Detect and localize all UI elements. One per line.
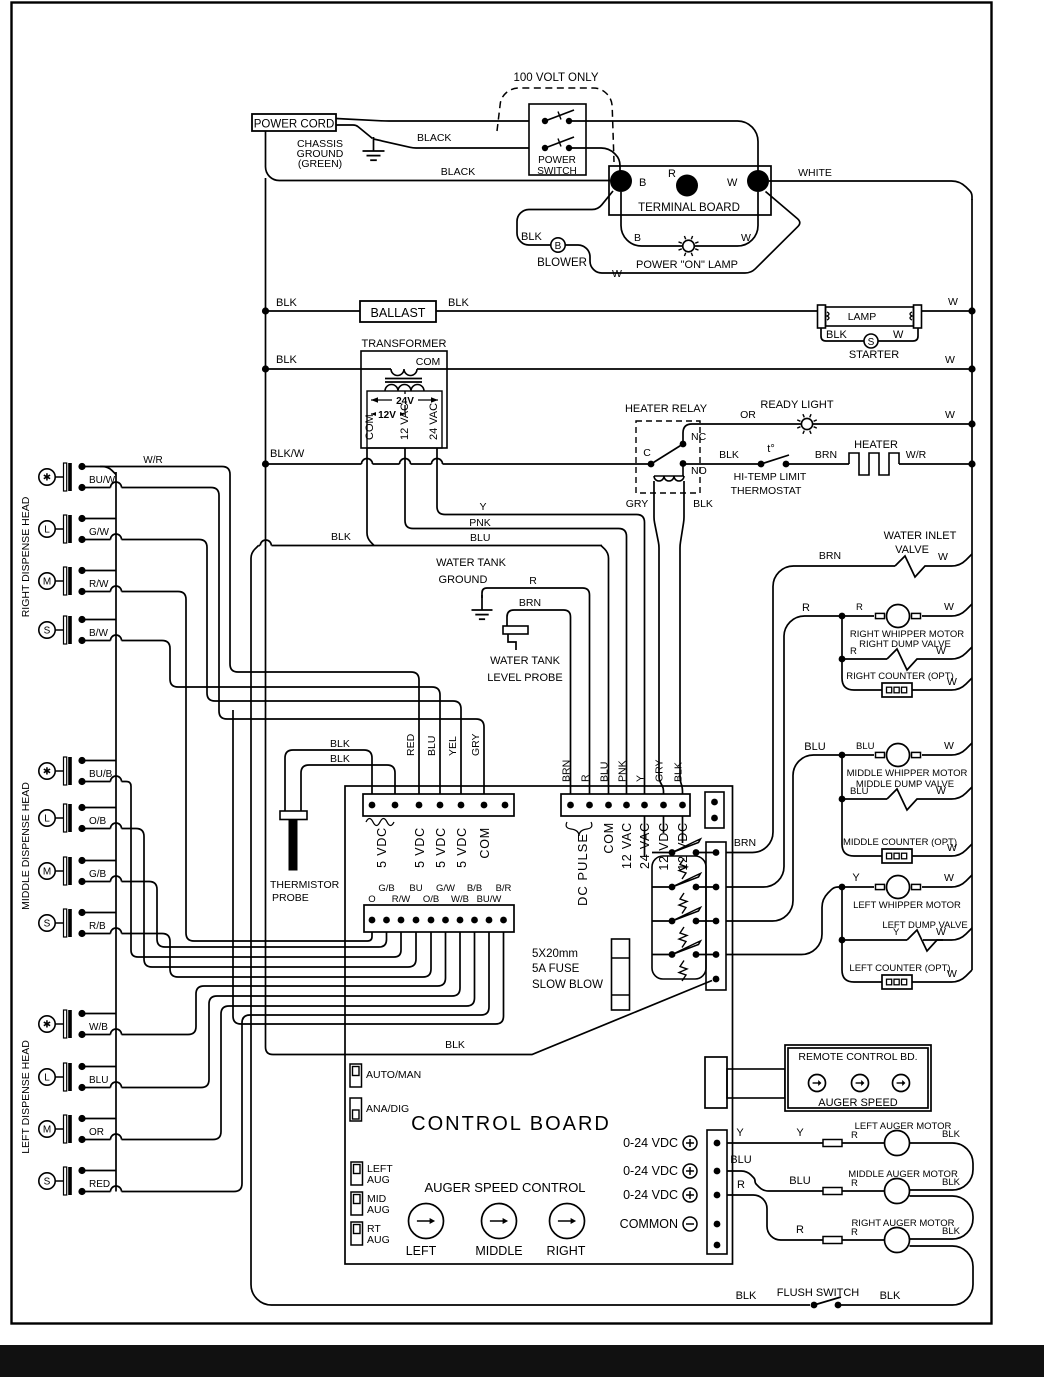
- svg-text:W/R: W/R: [906, 449, 927, 461]
- svg-text:PNK: PNK: [617, 760, 629, 782]
- middle dump valve feed wire: [841, 755, 843, 799]
- svg-text:BLK: BLK: [445, 1039, 465, 1051]
- hop BLK545 over chassis vertical: [260, 540, 271, 546]
- middle head connector ✱ bottom pin wire with hop: [82, 781, 111, 783]
- 10-pin connector box: [364, 905, 514, 932]
- power switch blade 1: [545, 110, 574, 121]
- svg-text:BLK: BLK: [826, 329, 847, 341]
- 10-pin connector pin 1: [369, 917, 376, 924]
- left head connector M pin bottom: [78, 1136, 85, 1143]
- svg-text:HI-TEMP LIMIT: HI-TEMP LIMIT: [734, 471, 807, 483]
- wire to middle dump valve: [842, 798, 887, 800]
- thermostat blade: [761, 455, 789, 464]
- left auger speed knob: [409, 1204, 444, 1239]
- 5VDC connector pin 5: [458, 802, 465, 809]
- lamp filament right: [910, 312, 912, 320]
- svg-text:ANA/DIG: ANA/DIG: [366, 1103, 409, 1115]
- relay coil GRY lead to pin: [654, 481, 664, 794]
- svg-text:FLUSH SWITCH: FLUSH SWITCH: [777, 1287, 860, 1299]
- svg-text:R/B: R/B: [89, 921, 106, 932]
- BLK wire chassis to relay common: [266, 981, 713, 1055]
- svg-text:W: W: [947, 676, 957, 688]
- 2-pin connector box: [705, 792, 724, 828]
- svg-text:S: S: [44, 626, 51, 637]
- MID AUG switch: [351, 1192, 363, 1215]
- right auger speed knob: [550, 1204, 585, 1239]
- relay feed wire from DC pulse pin 6: [663, 816, 665, 833]
- junction right dump valve: [839, 656, 846, 663]
- svg-text:GROUND: GROUND: [439, 574, 488, 586]
- triac relay row 2 blade: [672, 874, 701, 888]
- flush switch terminal right: [835, 1302, 842, 1309]
- middle head connector M bottom pin wire with hop: [82, 881, 111, 883]
- W wire middle whipper to bus: [922, 743, 972, 755]
- middle head connector M pin bottom: [78, 878, 85, 885]
- right head connector ✱ circle: [39, 469, 63, 485]
- svg-text:BLACK: BLACK: [417, 132, 451, 144]
- svg-text:R: R: [856, 602, 863, 613]
- svg-text:t°: t°: [767, 443, 774, 455]
- svg-text:O: O: [368, 894, 375, 905]
- svg-text:NC: NC: [691, 431, 707, 443]
- svg-text:SLOW BLOW: SLOW BLOW: [532, 979, 603, 991]
- svg-text:LEFT: LEFT: [406, 1244, 437, 1258]
- BU/W harness wire: [122, 488, 485, 795]
- triac relay row 3 left stub: [652, 920, 672, 922]
- right head connector S top pin wire to bus: [82, 619, 116, 621]
- relay contact C: [648, 461, 655, 468]
- svg-text:BRN: BRN: [519, 597, 541, 609]
- svg-text:COM: COM: [364, 414, 376, 440]
- svg-text:W: W: [936, 926, 946, 938]
- wire switch top to W post: [569, 121, 758, 172]
- svg-text:RIGHT DISPENSE HEAD: RIGHT DISPENSE HEAD: [20, 496, 32, 617]
- wire to left whipper motor: [842, 886, 874, 888]
- left head connector L top pin wire to bus: [82, 1066, 116, 1068]
- svg-text:BLU: BLU: [730, 1154, 751, 1166]
- svg-text:W: W: [938, 551, 948, 563]
- svg-text:BLU: BLU: [789, 1175, 810, 1187]
- svg-text:SWITCH: SWITCH: [537, 166, 576, 177]
- right auger dropping resistor: [823, 1237, 842, 1244]
- svg-text:HEATER RELAY: HEATER RELAY: [625, 403, 708, 415]
- DC pulse pin 6: [660, 802, 667, 809]
- svg-text:BRN: BRN: [561, 760, 573, 782]
- middle auger speed knob: [482, 1204, 517, 1239]
- svg-text:W: W: [727, 177, 738, 189]
- middle head connector L top pin wire to bus: [82, 807, 116, 809]
- svg-text:POWER CORD: POWER CORD: [254, 119, 335, 131]
- svg-text:B/B: B/B: [467, 883, 482, 894]
- svg-text:VALVE: VALVE: [895, 544, 929, 556]
- transformer COM tap wire down to BLK/BLU line: [367, 448, 374, 546]
- DC pulse connector box: [561, 794, 690, 816]
- BU/B harness wire: [122, 782, 402, 958]
- svg-text:STARTER: STARTER: [849, 349, 899, 361]
- B/R harness wire pin10: [233, 710, 504, 1024]
- triac relay row 3 right contact: [693, 918, 700, 925]
- remote board connector on control board: [705, 1057, 727, 1108]
- svg-text:DC PULSE: DC PULSE: [575, 833, 590, 906]
- triac relay row 3 gate zigzag: [679, 927, 687, 948]
- DC pulse pin 3: [605, 802, 612, 809]
- svg-text:BLK: BLK: [880, 1290, 901, 1302]
- DC pulse pin 5: [641, 802, 648, 809]
- middle auger motor: [885, 1179, 910, 1204]
- right head connector M contact bars: [64, 567, 72, 595]
- svg-text:S: S: [44, 919, 51, 930]
- wire to middle counter: [842, 799, 884, 856]
- svg-text:BLK: BLK: [276, 354, 297, 366]
- terminal board box: [609, 166, 771, 215]
- thermistor wire 2 BLK: [301, 765, 395, 811]
- svg-text:REMOTE CONTROL BD.: REMOTE CONTROL BD.: [798, 1051, 917, 1063]
- W/R wire right head to harness: [100, 467, 419, 795]
- terminal post R: [676, 175, 698, 197]
- junction chassis-ballast: [262, 307, 269, 314]
- svg-text:OR: OR: [740, 409, 756, 421]
- BRN riser to water inlet valve: [726, 566, 895, 853]
- thermostat terminal right: [783, 461, 790, 468]
- right head connector L bottom pin wire with hop: [82, 539, 111, 541]
- middle head connector L circle: [39, 810, 63, 826]
- right head connector M top pin wire to bus: [82, 570, 116, 572]
- power switch box: [529, 104, 586, 175]
- svg-text:0-24 VDC: 0-24 VDC: [623, 1136, 678, 1150]
- svg-text:BLU: BLU: [599, 762, 611, 782]
- wire to left counter: [842, 940, 884, 982]
- triac relay row 4 left contact: [669, 951, 676, 958]
- left head connector ✱ top pin wire to bus: [82, 1013, 116, 1015]
- LEFT AUG switch: [351, 1162, 363, 1185]
- right head connector ✱ bottom pin wire with hop: [82, 487, 111, 489]
- svg-text:THERMISTOR: THERMISTOR: [270, 879, 340, 891]
- transformer secondary winding: [385, 385, 424, 392]
- svg-text:LEFT DUMP VALVE: LEFT DUMP VALVE: [882, 920, 967, 931]
- middle head connector L pin top: [78, 804, 85, 811]
- flush switch blade: [814, 1297, 841, 1305]
- middle head connector M top pin wire to bus: [82, 860, 116, 862]
- BLU harness wire: [122, 932, 461, 1088]
- BLU riser wire to middle whipper: [726, 755, 842, 921]
- 5VDC connector pin 3: [416, 802, 423, 809]
- svg-text:BLK: BLK: [942, 1226, 961, 1237]
- relay strip common pin: [713, 976, 720, 983]
- fluorescent lamp end cap left: [818, 305, 826, 328]
- right head connector S pin bottom: [78, 637, 85, 644]
- svg-text:✱: ✱: [43, 1020, 51, 1031]
- wire resistor to left auger motor: [842, 1142, 885, 1144]
- triac relay row 3 strip pin: [713, 918, 720, 925]
- junction middle dump valve: [839, 796, 846, 803]
- 0-24VDC output strip: [707, 1130, 727, 1254]
- ANA/DIG switch: [350, 1098, 362, 1121]
- remote knob 2: [852, 1075, 869, 1092]
- power switch pole 2 left: [542, 145, 548, 151]
- W wire right dump to bus: [923, 647, 972, 659]
- 12V arrow span: [371, 408, 405, 419]
- svg-text:POWER: POWER: [538, 155, 576, 166]
- hop transformer 12VAC tap over BLKW: [400, 459, 411, 464]
- left auger BLK return bracket: [910, 1143, 974, 1190]
- svg-text:L: L: [44, 1073, 50, 1084]
- power on lamp wire B side: [621, 192, 683, 246]
- 100 volt only dashed outline: [497, 88, 614, 162]
- triac relay row 1 gate zigzag: [679, 859, 687, 880]
- power switch pole 2 right: [566, 145, 572, 151]
- wire switch bottom to B post: [569, 148, 620, 172]
- transformer 12VAC tap (PNK) down: [405, 448, 627, 794]
- svg-text:AUG: AUG: [367, 1204, 390, 1216]
- BRN wire thermostat to heater: [786, 463, 849, 465]
- water tank level probe symbol: [503, 626, 528, 650]
- svg-text:R: R: [851, 1178, 858, 1189]
- 5VDC connector pin 2: [392, 802, 399, 809]
- 0-24VDC strip pin 5: [714, 1242, 721, 1249]
- terminal post W: [747, 170, 769, 192]
- svg-text:BU/W: BU/W: [477, 894, 502, 905]
- triac relay row 4 wire to strip pin: [696, 954, 716, 956]
- svg-text:B/W: B/W: [89, 628, 108, 639]
- svg-text:BLU: BLU: [470, 532, 490, 544]
- BRN wire probe to DC pulse pin1: [507, 610, 571, 794]
- remote knob 1: [809, 1075, 826, 1092]
- black wire cord to power switch: [374, 139, 530, 148]
- W wire lamp to bus: [922, 310, 973, 312]
- relay blade C-NC: [651, 444, 683, 464]
- left dump valve feed wire: [841, 887, 843, 940]
- svg-text:PNK: PNK: [469, 517, 491, 529]
- relay feed wire from DC pulse pin 7: [682, 816, 684, 843]
- svg-text:Y: Y: [796, 1127, 804, 1139]
- transformer core line 2: [385, 381, 422, 383]
- triac relay row 4 strip pin: [713, 951, 720, 958]
- svg-text:✱: ✱: [43, 473, 51, 484]
- left head connector L pin top: [78, 1063, 85, 1070]
- svg-text:O/B: O/B: [423, 894, 439, 905]
- svg-text:MIDDLE COUNTER (OPT): MIDDLE COUNTER (OPT): [843, 837, 957, 848]
- svg-text:RIGHT AUGER MOTOR: RIGHT AUGER MOTOR: [851, 1218, 954, 1229]
- triac relay row 3 left contact: [669, 918, 676, 925]
- power switch pole 1 right: [566, 118, 572, 124]
- svg-text:W: W: [945, 354, 955, 366]
- right head connector S contact bars: [64, 616, 72, 644]
- svg-text:M: M: [43, 577, 51, 588]
- left head connector ✱ bottom pin wire with hop: [82, 1034, 111, 1036]
- BLK wire chassis bottom run (y545): [259, 545, 603, 547]
- svg-text:0-24 VDC: 0-24 VDC: [623, 1188, 678, 1202]
- svg-text:W: W: [947, 842, 957, 854]
- fluorescent lamp end cap right: [914, 305, 922, 328]
- left head connector L contact bars: [64, 1063, 72, 1091]
- 10-pin connector pin 10: [500, 917, 507, 924]
- svg-text:G/W: G/W: [89, 527, 110, 538]
- transformer primary winding: [391, 369, 417, 376]
- relay contact NO: [680, 460, 687, 467]
- svg-text:R: R: [737, 1179, 745, 1191]
- right dump valve feed wire: [841, 616, 843, 659]
- svg-text:AUGER SPEED CONTROL: AUGER SPEED CONTROL: [424, 1180, 585, 1195]
- W bus vertical right side: [971, 199, 973, 970]
- right head connector M circle: [39, 573, 63, 589]
- svg-text:RIGHT: RIGHT: [547, 1244, 586, 1258]
- power on lamp symbol: [679, 236, 699, 256]
- svg-text:✱: ✱: [43, 767, 51, 778]
- bottom black bar: [0, 1345, 1044, 1377]
- triac relay row 2 strip pin: [713, 884, 720, 891]
- svg-text:W/R: W/R: [143, 455, 162, 466]
- right auger motor: [885, 1228, 910, 1253]
- svg-text:GRY: GRY: [626, 498, 649, 510]
- svg-text:G/B: G/B: [378, 883, 394, 894]
- right head connector L pin bottom: [78, 536, 85, 543]
- W wire right counter to bus: [912, 678, 972, 690]
- left head connector S bottom pin wire with hop: [82, 1191, 111, 1193]
- svg-text:AUG: AUG: [367, 1234, 390, 1246]
- svg-text:PROBE: PROBE: [272, 892, 309, 904]
- svg-text:BLK: BLK: [693, 498, 713, 510]
- junction W bus heater: [968, 460, 975, 467]
- right head connector L circle: [39, 521, 63, 537]
- ready light lamp symbol: [797, 414, 817, 434]
- left head connector S pin top: [78, 1167, 85, 1174]
- terminal post B: [610, 170, 632, 192]
- minus terminal common: [683, 1217, 697, 1231]
- 10-pin connector pin 2: [383, 917, 390, 924]
- svg-text:5X20mm: 5X20mm: [532, 948, 578, 960]
- svg-text:READY LIGHT: READY LIGHT: [760, 399, 833, 411]
- O/B harness wire: [122, 829, 417, 968]
- remote board ribbon link: [727, 1069, 785, 1098]
- left head connector ✱ circle: [39, 1016, 63, 1032]
- BLU wire down to DC pulse pin3: [601, 546, 609, 795]
- svg-text:MIDDLE DISPENSE HEAD: MIDDLE DISPENSE HEAD: [20, 782, 32, 910]
- triac relay row 2 gate zigzag: [679, 893, 687, 914]
- remote knob 3: [893, 1075, 910, 1092]
- svg-text:B: B: [639, 177, 646, 189]
- chassis BLK left vertical to bottom: [251, 546, 810, 1306]
- right head connector ✱ contact bars: [64, 463, 72, 491]
- relay contact NC: [680, 441, 687, 448]
- hop transformer COM tap over BLKW: [362, 459, 373, 464]
- transformer secondary inner box: [367, 391, 442, 448]
- svg-text:BLK: BLK: [330, 753, 350, 765]
- dispense head common bus: [115, 472, 117, 1192]
- svg-text:COM: COM: [602, 822, 616, 854]
- svg-text:BLOWER: BLOWER: [537, 257, 587, 269]
- water inlet valve symbol: [895, 556, 931, 577]
- 0-24VDC strip pin 3: [714, 1192, 721, 1199]
- R/B harness wire: [122, 932, 432, 977]
- BLU wire 0-24VDC pin2 to middle auger: [727, 1171, 823, 1191]
- triac relay row 2 wire to strip pin: [696, 886, 716, 888]
- svg-text:BRN: BRN: [819, 550, 841, 562]
- junction right whipper feed: [839, 613, 846, 620]
- svg-text:LEFT DISPENSE HEAD: LEFT DISPENSE HEAD: [20, 1040, 32, 1154]
- triac relay row 2 left stub: [652, 886, 672, 888]
- transformer box: [361, 351, 447, 448]
- svg-text:BU/W: BU/W: [89, 475, 116, 486]
- svg-text:24 VAC: 24 VAC: [428, 403, 440, 440]
- svg-text:5A FUSE: 5A FUSE: [532, 963, 580, 975]
- 5VDC brace pins 1-2: [366, 819, 394, 826]
- triac relay row 4 left stub: [652, 954, 672, 956]
- svg-text:BLK: BLK: [276, 297, 297, 309]
- W/B harness wire: [122, 932, 446, 1035]
- svg-text:R: R: [580, 774, 592, 782]
- svg-text:G/W: G/W: [436, 883, 455, 894]
- svg-text:COM: COM: [416, 356, 441, 368]
- COM wire transformer to bus: [417, 368, 972, 370]
- 10-pin connector pin 9: [486, 917, 493, 924]
- svg-text:BLU: BLU: [426, 736, 438, 756]
- svg-text:W: W: [612, 268, 622, 280]
- OR harness wire: [122, 932, 475, 1140]
- svg-text:CONTROL BOARD: CONTROL BOARD: [411, 1113, 611, 1135]
- transformer core line 1: [385, 378, 422, 380]
- R wire 0-24VDC pin3 to right auger: [727, 1195, 823, 1240]
- left head connector S top pin wire to bus: [82, 1170, 116, 1172]
- left whipper motor: [876, 876, 921, 899]
- triac relay row 4 gate zigzag: [679, 961, 687, 982]
- svg-text:AUGER SPEED: AUGER SPEED: [818, 1097, 898, 1109]
- power cord line to switch top: [336, 119, 529, 122]
- svg-text:W: W: [944, 601, 954, 613]
- middle head connector M circle: [39, 863, 63, 879]
- left auger dropping resistor: [823, 1140, 842, 1147]
- fuse body: [612, 939, 630, 1010]
- Y wire 0-24VDC pin1 to left auger: [727, 1142, 823, 1144]
- middle head connector M pin top: [78, 857, 85, 864]
- middle head connector S bottom pin wire with hop: [82, 933, 111, 935]
- svg-text:W: W: [893, 329, 904, 341]
- relay feed wire from DC pulse pin 5: [644, 816, 646, 857]
- ready light wire from NC: [683, 424, 972, 444]
- svg-text:RED: RED: [405, 733, 417, 756]
- fluorescent lamp tube: [826, 307, 914, 326]
- triac relay row 3 wire to strip pin: [696, 920, 716, 922]
- left head connector S pin bottom: [78, 1188, 85, 1195]
- svg-text:W: W: [947, 968, 957, 980]
- svg-text:R: R: [851, 1130, 858, 1141]
- right whipper motor: [876, 605, 921, 628]
- left counter symbol: [882, 975, 912, 989]
- svg-text:THERMOSTAT: THERMOSTAT: [731, 485, 802, 497]
- svg-text:WATER TANK: WATER TANK: [490, 655, 561, 667]
- W wire left dump to bus: [923, 928, 972, 940]
- svg-text:BLK: BLK: [736, 1290, 757, 1302]
- 5VDC connector box: [363, 794, 514, 816]
- water tank ground symbol: [472, 610, 493, 619]
- svg-text:R: R: [850, 646, 857, 657]
- left head connector M pin top: [78, 1115, 85, 1122]
- svg-text:(GREEN): (GREEN): [298, 158, 342, 170]
- middle auger dropping resistor: [823, 1188, 842, 1195]
- svg-text:100 VOLT ONLY: 100 VOLT ONLY: [513, 72, 598, 84]
- middle head connector ✱ pin bottom: [78, 778, 85, 785]
- svg-text:RED: RED: [89, 1179, 110, 1190]
- 10-pin connector pin 6: [442, 917, 449, 924]
- svg-text:LEFT WHIPPER MOTOR: LEFT WHIPPER MOTOR: [853, 900, 961, 911]
- svg-text:BLK: BLK: [673, 762, 685, 782]
- svg-text:NO: NO: [691, 465, 707, 477]
- svg-text:GRY: GRY: [470, 733, 482, 756]
- svg-text:W: W: [936, 785, 946, 797]
- svg-text:BLK: BLK: [942, 1129, 961, 1140]
- heater relay dashed box: [636, 421, 700, 493]
- junction left dump valve: [839, 937, 846, 944]
- 10-pin connector pin 5: [428, 917, 435, 924]
